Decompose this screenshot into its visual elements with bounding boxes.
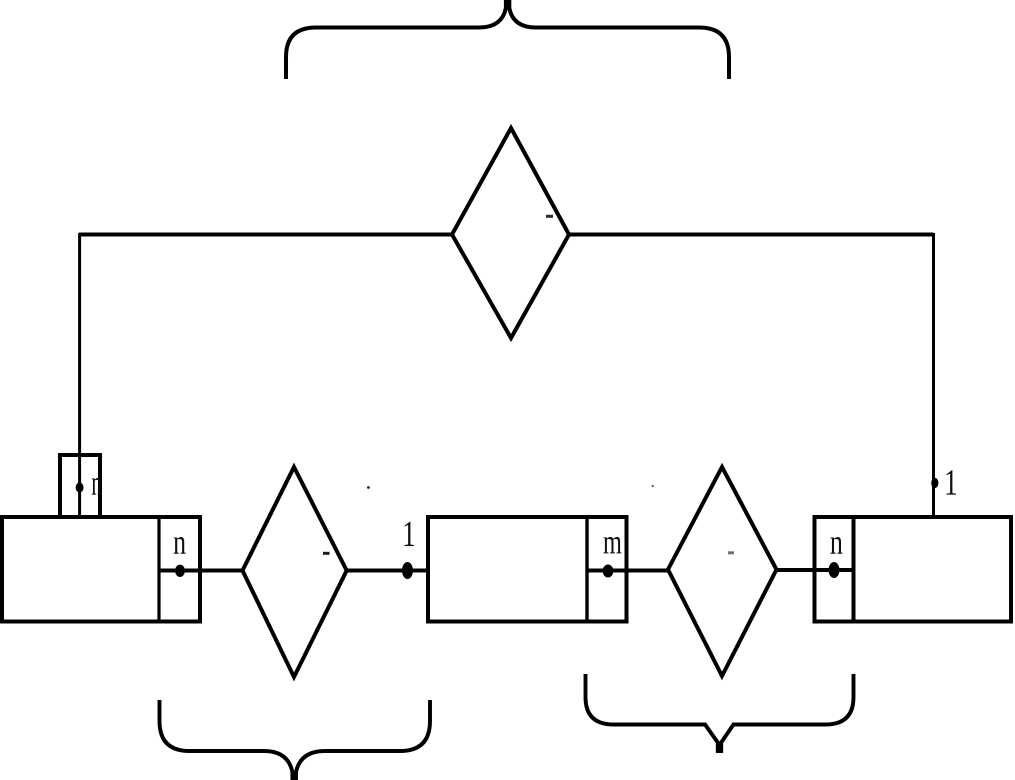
connection dot near E2 left (402, 562, 413, 579)
R1 dash (546, 215, 553, 218)
top brace (286, 0, 729, 79)
label n (attribute box) (92, 478, 102, 495)
wire: R3 to E3 (776, 568, 854, 572)
relationship diamond R2 (bottom-left) (243, 467, 347, 677)
label n (E1 compartment) (174, 537, 186, 554)
attribute box on E1 (60, 455, 100, 517)
relationship diamond R1 (top) (452, 128, 569, 338)
relationship diamond R3 (bottom-right) (668, 467, 777, 676)
R3 dash (728, 551, 734, 554)
entity E2 divider (585, 517, 588, 622)
wire: left drop (78, 233, 81, 517)
label 1 (left of E2) (405, 522, 415, 546)
bottom-left brace (160, 700, 431, 780)
entity E2 (bottom-middle) (428, 517, 627, 622)
connection dot in E2 compartment (603, 565, 614, 578)
stray speck left (367, 486, 370, 489)
connection dot in E3 compartment (829, 562, 840, 578)
R2 dash (323, 552, 330, 555)
wire: E2 to R3 (587, 569, 669, 573)
entity E1 (bottom-left) (2, 517, 200, 622)
entity E1 divider (157, 517, 160, 622)
label n (E3 compartment) (831, 537, 843, 554)
entity E3 (bottom-right) (815, 517, 1012, 622)
bottom-right brace (586, 674, 854, 753)
label 1 (right drop) (947, 470, 957, 494)
wire: E1 to R2 (159, 569, 244, 573)
wire: R2 to E2 (346, 569, 428, 573)
entity E3 divider (852, 517, 856, 622)
wire: main horizontal bus (79, 233, 934, 237)
connection dot on attribute wire (76, 483, 84, 493)
stray speck right (652, 485, 654, 487)
connection dot in E1 compartment (175, 565, 185, 577)
wire: right drop (932, 233, 935, 517)
label m (E2 compartment) (604, 537, 622, 554)
connection dot on right drop (931, 478, 938, 488)
